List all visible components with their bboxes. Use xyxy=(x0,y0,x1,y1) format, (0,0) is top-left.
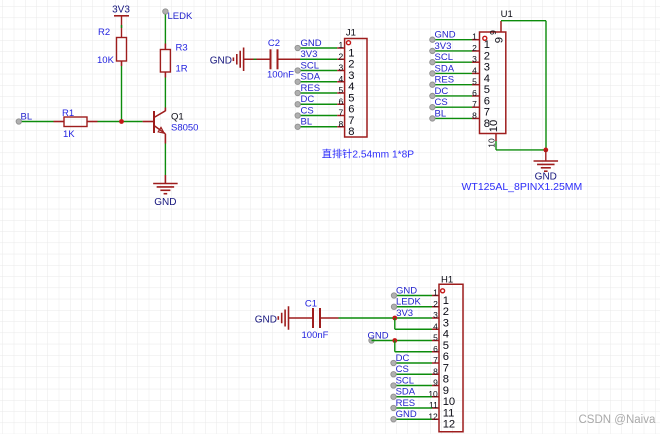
svg-text:DC: DC xyxy=(301,94,315,105)
svg-text:2: 2 xyxy=(472,43,477,53)
svg-text:4: 4 xyxy=(472,65,477,75)
svg-text:5: 5 xyxy=(433,333,438,343)
H1 pin 2 net LEDK xyxy=(432,306,439,308)
H1 pin 1 marker xyxy=(441,289,445,293)
svg-text:SDA: SDA xyxy=(301,72,321,83)
pin BL xyxy=(16,119,21,124)
svg-text:CS: CS xyxy=(396,364,409,375)
svg-text:GND: GND xyxy=(396,409,417,420)
wire GND flag to C1 xyxy=(289,317,314,319)
U1 pin 1 marker xyxy=(483,36,487,40)
svg-text:5: 5 xyxy=(484,84,490,96)
svg-text:LEDK: LEDK xyxy=(396,297,421,308)
wire C1 to H1 pin 3 net 3V3 xyxy=(320,317,339,319)
svg-text:DC: DC xyxy=(396,353,410,364)
svg-text:7: 7 xyxy=(338,108,343,118)
svg-text:5: 5 xyxy=(472,77,477,87)
svg-text:C2: C2 xyxy=(268,38,280,49)
H1 pin 1 net GND xyxy=(432,295,439,297)
svg-text:9: 9 xyxy=(488,30,498,35)
svg-text:2: 2 xyxy=(443,306,449,318)
wire R3 to Q1 collector xyxy=(164,72,166,78)
svg-text:8: 8 xyxy=(433,366,438,376)
svg-text:5: 5 xyxy=(348,92,354,104)
svg-text:3: 3 xyxy=(338,63,343,73)
U1 pin 1 net GND xyxy=(432,39,472,41)
svg-text:SDA: SDA xyxy=(396,387,416,398)
J1 pin 3 net SCL xyxy=(298,70,338,72)
ground flag GND at C1 xyxy=(288,306,290,330)
svg-text:1: 1 xyxy=(433,288,438,298)
svg-text:7: 7 xyxy=(472,99,477,109)
svg-text:4: 4 xyxy=(348,81,354,93)
svg-text:BL: BL xyxy=(435,108,447,119)
J1 pin 2 net 3V3 xyxy=(337,58,344,60)
svg-text:4: 4 xyxy=(338,74,343,84)
svg-text:CS: CS xyxy=(301,105,314,116)
svg-text:8: 8 xyxy=(443,374,449,386)
ground GND under U1 xyxy=(534,160,559,162)
svg-text:10: 10 xyxy=(443,396,455,408)
svg-text:Q1: Q1 xyxy=(171,112,184,123)
svg-text:7: 7 xyxy=(348,115,354,127)
svg-text:3V3: 3V3 xyxy=(396,308,413,319)
ground flag GND at C2 xyxy=(243,48,245,72)
svg-text:R1: R1 xyxy=(62,108,74,119)
junction at U1 ground xyxy=(543,148,548,153)
svg-text:100nF: 100nF xyxy=(302,330,329,341)
svg-text:4: 4 xyxy=(484,73,490,85)
wire BL to R1 xyxy=(22,121,54,123)
svg-text:LEDK: LEDK xyxy=(168,11,193,22)
svg-text:4: 4 xyxy=(433,321,438,331)
svg-text:1: 1 xyxy=(472,32,477,42)
svg-text:3: 3 xyxy=(443,317,449,329)
svg-text:3: 3 xyxy=(484,62,490,74)
svg-text:2: 2 xyxy=(484,50,490,62)
svg-text:7: 7 xyxy=(443,362,449,374)
capacitor C1 xyxy=(312,308,314,328)
J1 pin 1 marker xyxy=(347,41,351,45)
svg-text:5: 5 xyxy=(338,85,343,95)
svg-text:GND: GND xyxy=(154,197,176,208)
wire U1 pin 9 to ground xyxy=(501,20,546,22)
H1 pin 5 net GND wiring xyxy=(369,338,374,343)
svg-text:2: 2 xyxy=(433,299,438,309)
U1 pin 9 xyxy=(500,21,502,32)
svg-text:GND: GND xyxy=(396,285,417,296)
svg-text:1: 1 xyxy=(338,40,343,50)
svg-text:7: 7 xyxy=(433,355,438,365)
wire R2 to node A xyxy=(121,61,123,66)
svg-text:6: 6 xyxy=(443,351,449,363)
capacitor C2 xyxy=(270,49,272,69)
svg-text:GND: GND xyxy=(301,38,322,49)
svg-text:10K: 10K xyxy=(97,55,115,66)
svg-text:C1: C1 xyxy=(305,299,317,310)
svg-text:1: 1 xyxy=(443,295,449,307)
svg-text:6: 6 xyxy=(472,88,477,98)
svg-text:RES: RES xyxy=(435,75,455,86)
H1 pin 11 net RES xyxy=(432,407,439,409)
svg-text:GND: GND xyxy=(368,330,389,341)
svg-text:SCL: SCL xyxy=(301,60,319,71)
svg-text:2: 2 xyxy=(338,51,343,61)
svg-text:3V3: 3V3 xyxy=(112,5,130,16)
svg-text:直排针2.54mm 1*8P: 直排针2.54mm 1*8P xyxy=(322,148,414,161)
J1 pin 8 net BL xyxy=(298,126,338,128)
wire 3V3 to R2 xyxy=(121,16,123,38)
svg-text:3V3: 3V3 xyxy=(301,49,318,60)
svg-text:1: 1 xyxy=(484,39,490,51)
svg-text:8: 8 xyxy=(348,126,354,138)
J1 pin 1 net GND xyxy=(298,47,338,49)
svg-text:SCL: SCL xyxy=(396,375,414,386)
U1 pin 10 xyxy=(495,134,497,142)
wire junction to ground symbol xyxy=(545,150,547,161)
H1 pin 8 net CS xyxy=(432,373,439,375)
svg-text:6: 6 xyxy=(433,344,438,354)
H1 pin 4 xyxy=(432,328,439,330)
resistor R2 xyxy=(117,38,127,62)
svg-text:U1: U1 xyxy=(501,9,513,20)
svg-text:3V3: 3V3 xyxy=(435,41,452,52)
svg-text:4: 4 xyxy=(443,329,449,341)
svg-text:6: 6 xyxy=(348,104,354,116)
svg-text:1R: 1R xyxy=(176,64,188,75)
U1 pin 7 net CS xyxy=(432,106,472,108)
connector J1 xyxy=(345,39,367,138)
svg-text:6: 6 xyxy=(338,96,343,106)
svg-text:6: 6 xyxy=(484,95,490,107)
ground GND under Q1 xyxy=(153,183,178,185)
J1 pin 4 net SDA xyxy=(298,81,338,83)
svg-text:SCL: SCL xyxy=(435,52,453,63)
svg-text:8: 8 xyxy=(472,110,477,120)
svg-text:5: 5 xyxy=(443,340,449,352)
svg-text:100nF: 100nF xyxy=(267,70,294,81)
junction at H1 pin 3 xyxy=(392,316,397,321)
svg-text:BL: BL xyxy=(301,117,313,128)
wire node A to Q1 base xyxy=(143,121,154,123)
wire junction to H1 pin 4 xyxy=(394,318,396,329)
svg-text:12: 12 xyxy=(443,419,455,431)
U1 pin 4 net SDA xyxy=(432,72,472,74)
svg-text:8: 8 xyxy=(338,119,343,129)
svg-text:2: 2 xyxy=(348,59,354,71)
svg-text:1K: 1K xyxy=(63,129,75,140)
H1 pin 3 net 3V3 xyxy=(432,317,439,319)
J1 pin 6 net DC xyxy=(298,103,338,105)
svg-text:RES: RES xyxy=(396,398,416,409)
svg-text:10: 10 xyxy=(487,138,497,148)
wire Q1 emitter to ground xyxy=(164,134,166,144)
svg-text:H1: H1 xyxy=(441,275,453,286)
svg-text:CSDN @Naiva: CSDN @Naiva xyxy=(579,414,656,426)
connector U1 xyxy=(480,32,506,134)
svg-text:9: 9 xyxy=(433,378,438,388)
wire U1 pin 10 to ground xyxy=(495,141,497,150)
svg-text:11: 11 xyxy=(443,407,455,419)
svg-text:R3: R3 xyxy=(176,43,188,54)
U1 pin 3 net SCL xyxy=(432,61,472,63)
svg-text:7: 7 xyxy=(484,107,490,119)
wire GND flag to C2 xyxy=(244,58,271,60)
H1 pin 12 net GND xyxy=(432,418,439,420)
svg-text:10: 10 xyxy=(488,120,500,132)
resistor R1 xyxy=(64,117,87,127)
H1 pin 6 xyxy=(432,351,439,353)
H1 pin 5 net GND xyxy=(432,340,439,342)
J1 pin 5 net RES xyxy=(298,92,338,94)
svg-text:R2: R2 xyxy=(98,27,110,38)
U1 pin 2 net 3V3 xyxy=(432,50,472,52)
svg-text:GND: GND xyxy=(210,56,232,67)
wire LEDK to R3 xyxy=(164,15,166,44)
junction at H1 pin 5 xyxy=(392,338,397,343)
svg-text:GND: GND xyxy=(255,314,277,325)
node A junction xyxy=(119,119,124,124)
H1 pin 7 net DC xyxy=(432,362,439,364)
svg-text:3: 3 xyxy=(348,70,354,82)
svg-text:9: 9 xyxy=(443,385,449,397)
transistor Q1 xyxy=(153,111,155,133)
wire C2 to J1 pin 2 xyxy=(278,58,301,60)
svg-text:S8050: S8050 xyxy=(171,123,198,134)
U1 pin 6 net DC xyxy=(432,95,472,97)
svg-text:DC: DC xyxy=(435,86,449,97)
J1 pin 7 net CS xyxy=(298,115,338,117)
svg-text:CS: CS xyxy=(435,97,448,108)
H1 pin 10 net SDA xyxy=(432,396,439,398)
wire junction to H1 pin 6 xyxy=(394,341,396,352)
svg-text:SDA: SDA xyxy=(435,63,455,74)
svg-text:1: 1 xyxy=(348,47,354,59)
H1 pin 9 net SCL xyxy=(432,385,439,387)
U1 pin 5 net RES xyxy=(432,84,472,86)
H1 pin 3 net 3V3 wiring xyxy=(395,317,432,319)
svg-text:WT125AL_8PINX1.25MM: WT125AL_8PINX1.25MM xyxy=(462,181,583,193)
svg-text:RES: RES xyxy=(301,83,321,94)
svg-text:GND: GND xyxy=(435,30,456,41)
resistor R3 xyxy=(160,50,170,73)
svg-text:3: 3 xyxy=(472,54,477,64)
svg-text:3: 3 xyxy=(433,310,438,320)
svg-text:J1: J1 xyxy=(346,28,356,39)
U1 pin 8 net BL xyxy=(432,117,472,119)
svg-text:9: 9 xyxy=(494,37,506,43)
pin LEDK xyxy=(163,9,168,14)
connector H1 xyxy=(439,284,463,432)
wire R1 to node A xyxy=(87,121,98,123)
